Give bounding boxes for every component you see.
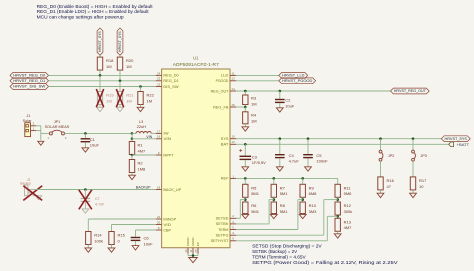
svg-text:6M8: 6M8 [309, 191, 318, 196]
svg-text:R15: R15 [118, 233, 126, 238]
svg-text:REG_OUT: REG_OUT [211, 89, 229, 93]
svg-text:21: 21 [157, 215, 161, 219]
svg-text:1M: 1M [106, 98, 112, 103]
jumper JP1 SOLAR MEAS [45, 120, 70, 140]
svg-text:10uF: 10uF [90, 143, 100, 148]
svg-text:JP3: JP3 [420, 154, 427, 158]
svg-text:10: 10 [184, 249, 188, 253]
junction BAT/C3 [244, 143, 247, 146]
svg-text:14: 14 [232, 87, 236, 91]
svg-text:SW: SW [163, 132, 169, 136]
svg-text:1M: 1M [126, 98, 132, 103]
resistor R5 [243, 184, 260, 197]
wire VIN [132, 138, 156, 140]
wire SYS to JP2 [380, 139, 382, 151]
note text top-left [37, 4, 154, 20]
ground below C5 [305, 167, 312, 171]
wire SYS to JP3 [412, 139, 414, 151]
svg-text:SOLAR MEAS: SOLAR MEAS [45, 125, 70, 129]
wire C2 bottom [279, 103, 281, 108]
junction divider R12/R13 [336, 215, 339, 218]
wire REG_FB [236, 106, 245, 108]
wire R14 to ground [87, 245, 89, 248]
wire REF to R5 [244, 178, 246, 184]
wire R10 to ground [302, 213, 304, 216]
svg-text:REG_D1: REG_D1 [163, 79, 178, 83]
wire REF to R9 [302, 178, 304, 184]
wire R20 to REG_D1 [119, 70, 121, 81]
wire label to R20 [119, 55, 121, 57]
svg-text:1F/5.5V: 1F/5.5V [252, 160, 266, 165]
svg-text:J1: J1 [26, 114, 30, 118]
svg-text:R4: R4 [251, 113, 257, 118]
resistor R21 (DNP ghost) [117, 90, 134, 107]
svg-text:SETHYST: SETHYST [211, 239, 229, 243]
junction VIN/R1 [131, 138, 134, 141]
svg-text:REG_D0 (Enable Boost) = HIGH =: REG_D0 (Enable Boost) = HIGH = Enabled b… [37, 4, 154, 9]
ground below C1 [82, 148, 89, 152]
svg-text:SETBK (Backup) = 2V: SETBK (Backup) = 2V [252, 249, 297, 254]
svg-text:C6: C6 [144, 236, 150, 241]
svg-text:BAT: BAT [221, 143, 229, 147]
junction REF/R7 [273, 177, 276, 180]
svg-text:R16: R16 [387, 178, 395, 183]
wire R13 to ground [337, 231, 339, 234]
svg-text:R13: R13 [344, 219, 352, 224]
wire JP2 to R16 [380, 161, 382, 177]
svg-text:R7: R7 [280, 185, 286, 190]
junction divider R7/R8 [273, 198, 276, 201]
wire MINOP [88, 219, 155, 232]
wire REG_D0 to R19 [99, 75, 101, 90]
ground below R2 [129, 175, 136, 179]
wire R3 top [244, 91, 246, 95]
global label HRVST_PGOOD [279, 78, 316, 84]
resistor R6 [243, 202, 260, 214]
resistor R11 [335, 184, 352, 197]
wire TERM [236, 200, 302, 230]
svg-text:MPPT: MPPT [163, 153, 173, 157]
svg-text:R18: R18 [106, 58, 114, 63]
svg-text:SYS: SYS [221, 137, 230, 141]
wire LLD [236, 74, 278, 76]
inductor L3 [132, 120, 156, 134]
svg-text:100k: 100k [94, 238, 103, 243]
wire VIN drop [131, 133, 133, 138]
ground below R16 [377, 193, 384, 197]
junction divider R11/R12 [336, 198, 339, 201]
svg-text:ADP5091ACPZ-1-R7: ADP5091ACPZ-1-R7 [173, 62, 220, 67]
capacitor C7 (DNP ghost) [81, 190, 105, 209]
resistor R16 [378, 177, 395, 190]
wire R18 to REG_D0 [99, 70, 101, 75]
svg-text:4.7uF: 4.7uF [95, 203, 105, 207]
svg-text:1M: 1M [126, 64, 132, 69]
svg-text:REG_D1 (Enable LDO) = HIGH = E: REG_D1 (Enable LDO) = HIGH = Enabled by … [37, 9, 150, 14]
svg-text:R5: R5 [251, 185, 257, 190]
svg-text:5M1: 5M1 [280, 191, 289, 196]
svg-text:HRVST_SYS: HRVST_SYS [118, 30, 122, 52]
wire BAT rail [236, 143, 448, 145]
junction SYS/C5 [307, 137, 310, 140]
svg-text:R2: R2 [138, 161, 144, 166]
resistor R4 [243, 107, 257, 124]
svg-text:SETPG: SETPG [216, 234, 229, 238]
junction C1 tap [84, 132, 87, 135]
junction REG_OUT/R3 [244, 90, 247, 93]
svg-text:10nF: 10nF [144, 241, 154, 246]
global label HRVST_REG_D0 [10, 73, 49, 79]
svg-text:C4: C4 [289, 153, 295, 158]
junction REF/R9 [301, 177, 304, 180]
junction L3/R1 tap [131, 132, 134, 135]
junction C7 tap [84, 188, 87, 191]
svg-text:TERM: TERM [218, 228, 228, 232]
hierarchical label +BATT [449, 142, 470, 147]
wire R22 to ground [140, 105, 142, 108]
ground below R13 [334, 234, 341, 238]
ground below R10 [299, 214, 306, 218]
svg-text:5M1: 5M1 [251, 191, 260, 196]
wire R5 to R6 [244, 197, 246, 202]
resistor R3 [243, 95, 257, 106]
svg-text:3M3: 3M3 [309, 209, 318, 214]
svg-text:SETBK: SETBK [216, 222, 230, 226]
wire R11 to R12 [337, 197, 339, 202]
capacitor C4 [275, 153, 299, 164]
svg-text:R12: R12 [344, 203, 352, 208]
wire R3 to REG_FB [244, 105, 246, 108]
svg-text:1M: 1M [106, 64, 112, 69]
svg-text:VIN: VIN [163, 137, 171, 141]
wire R16 to ground [380, 190, 382, 193]
svg-text:10: 10 [419, 184, 424, 189]
ground below J1 [38, 141, 44, 145]
svg-text:HRVST_REG_D1: HRVST_REG_D1 [13, 79, 45, 83]
svg-text:LLD: LLD [221, 74, 229, 78]
svg-text:19: 19 [232, 135, 236, 139]
svg-text:L3: L3 [139, 120, 143, 124]
svg-text:HRVST_SYS: HRVST_SYS [98, 30, 102, 52]
resistor R8 [271, 202, 288, 214]
svg-text:MCU can change settings after: MCU can change settings after powerup [37, 15, 125, 20]
wire label to R18 [99, 55, 101, 57]
junction REG_FB [244, 106, 247, 109]
svg-text:REG_D0: REG_D0 [163, 74, 178, 78]
junction REG_D0/R18 [99, 74, 102, 77]
capacitor C1 [81, 137, 100, 148]
jumper JP2 [379, 150, 394, 161]
wire REF to R7 [273, 178, 275, 184]
svg-text:TERM (Terminal) = 4.65V: TERM (Terminal) = 4.65V [252, 254, 306, 259]
DNP cross over C7 [79, 190, 92, 210]
wire VIN to R1 [131, 139, 133, 142]
wire C6 to ground [135, 241, 137, 246]
wire REG_OUT [236, 90, 390, 92]
svg-text:R10: R10 [309, 203, 317, 208]
wire C4 top [279, 139, 281, 154]
svg-text:100nF: 100nF [316, 159, 328, 164]
svg-text:Solar: Solar [23, 119, 33, 123]
svg-text:300k: 300k [344, 209, 353, 214]
capacitor C2 [275, 98, 295, 109]
note text bottom-right [252, 243, 398, 265]
wire JP1 to SW node [65, 132, 133, 134]
svg-text:47: 47 [387, 184, 392, 189]
resistor R19 (DNP ghost) [97, 90, 114, 107]
svg-text:24: 24 [157, 71, 161, 75]
DNP cross over J2 [23, 186, 42, 201]
svg-text:R20: R20 [126, 58, 134, 63]
svg-text:13: 13 [232, 77, 236, 81]
svg-text:4M7: 4M7 [344, 225, 353, 230]
wire JP3 to R17 [412, 161, 414, 177]
DNP cross over R21 [116, 89, 123, 107]
resistor R14 [86, 232, 103, 245]
svg-text:4M7: 4M7 [138, 148, 147, 153]
wire C1 top [84, 133, 86, 138]
svg-text:1M8: 1M8 [138, 166, 147, 171]
svg-text:C7: C7 [95, 197, 100, 201]
wire REF rail [236, 178, 337, 184]
wire SYS rail [236, 138, 441, 140]
svg-text:11: 11 [232, 71, 235, 75]
svg-text:PGND: PGND [186, 237, 190, 247]
junction SYS/JP3 [412, 137, 415, 140]
junction SYS/JP2 [379, 137, 382, 140]
resistor R22 [138, 92, 155, 105]
wire C2 top [279, 91, 281, 99]
capacitor C5 [303, 153, 328, 164]
resistor R9 [300, 184, 317, 197]
ground below C3 [242, 167, 249, 171]
svg-text:VID: VID [163, 223, 171, 227]
svg-text:1M: 1M [147, 98, 153, 103]
svg-text:5M1: 5M1 [251, 209, 260, 214]
resistor R7 [271, 184, 288, 197]
junction REF/R5 [244, 177, 247, 180]
svg-text:4.7uF: 4.7uF [289, 159, 300, 164]
ground below R15 [108, 248, 115, 252]
capacitor C6 [131, 236, 153, 247]
junction DIS_SW/R22 [139, 85, 142, 88]
svg-text:R9: R9 [309, 185, 315, 190]
svg-text:1M: 1M [251, 101, 257, 106]
global label HRVST_SYS vertical 1 [97, 28, 103, 55]
svg-text:DIS_SW: DIS_SW [163, 85, 179, 89]
wire SETBK [236, 200, 273, 224]
net label BACKUP [136, 186, 151, 190]
svg-text:SETSD: SETSD [216, 217, 230, 221]
svg-text:MINOP: MINOP [163, 217, 177, 221]
ground below R8 [270, 214, 277, 218]
svg-text:+BATT: +BATT [457, 143, 470, 147]
svg-text:SETSD (Stop Discharging) = 2V: SETSD (Stop Discharging) = 2V [252, 243, 322, 248]
wire R4 to ground [244, 124, 246, 127]
resistor R20 [117, 57, 134, 70]
svg-text:10uF: 10uF [285, 103, 295, 108]
svg-text:REG_FB: REG_FB [213, 105, 229, 109]
op-amp U1 ADP5091ACPZ-1-R7 [156, 56, 237, 254]
capacitor C3 supercap [239, 144, 266, 167]
svg-text:1M: 1M [251, 118, 257, 123]
junction GND [192, 254, 195, 257]
svg-text:R14: R14 [94, 233, 102, 238]
ground below R6 [242, 214, 249, 218]
svg-text:U1: U1 [193, 56, 199, 61]
svg-text:R8: R8 [280, 203, 286, 208]
ground below R22 [137, 107, 144, 111]
wire R9 to R10 [302, 197, 304, 202]
ground below R21 (ghost) [117, 107, 124, 111]
svg-text:11: 11 [189, 249, 193, 252]
wire CBP [136, 230, 156, 237]
svg-text:16: 16 [157, 135, 161, 139]
wire SETSD [236, 200, 245, 219]
global label HRVST_REG_OUT [391, 88, 430, 94]
svg-text:HRVST_SYS: HRVST_SYS [445, 137, 468, 141]
resistor R12 [335, 202, 352, 215]
svg-text:HRVST_REG_OUT: HRVST_REG_OUT [394, 89, 426, 93]
svg-text:BACKUP: BACKUP [136, 186, 151, 190]
junction divider R5/R6 [244, 198, 247, 201]
svg-text:18: 18 [157, 185, 161, 189]
ground below R19 (ghost) [97, 107, 104, 111]
svg-text:CBP: CBP [163, 228, 171, 232]
connector J1 Solar [23, 114, 36, 136]
global label HRVST_LLD [279, 73, 308, 79]
wire DIS_SW to R22 [140, 87, 142, 92]
svg-text:R11: R11 [344, 185, 352, 190]
wire REG_D1 to R21 [119, 81, 121, 90]
svg-text:HRVST_LLD: HRVST_LLD [282, 74, 305, 78]
svg-text:5M1: 5M1 [280, 209, 289, 214]
net label VIN [146, 135, 152, 139]
wire R17 to ground [412, 190, 414, 193]
ground below C2 [276, 108, 283, 112]
wire R2 to ground [131, 173, 133, 176]
svg-text:R22: R22 [147, 93, 155, 98]
wire PGOOD [236, 80, 278, 82]
svg-text:AGND: AGND [191, 237, 195, 247]
global label HRVST_DIS_SW [10, 84, 49, 90]
connector J2 Backup (DNP ghost) [20, 178, 41, 200]
global label HRVST_REG_D1 [10, 78, 49, 84]
wire net DIS_SW [49, 86, 156, 88]
svg-text:HRVST_DIS_SW: HRVST_DIS_SW [13, 85, 46, 89]
wire BACKUP [36, 189, 156, 191]
resistor R13 [335, 218, 352, 231]
svg-text:R19: R19 [106, 93, 114, 98]
svg-text:JP2: JP2 [388, 154, 395, 158]
wire R6 to ground [244, 213, 246, 216]
svg-text:Backup: Backup [20, 181, 31, 185]
svg-text:12: 12 [232, 140, 236, 144]
svg-text:JP1: JP1 [54, 120, 61, 124]
wire R7 to R8 [273, 197, 275, 202]
svg-text:EP: EP [196, 242, 200, 246]
svg-text:17: 17 [157, 129, 161, 133]
ground below R14 [85, 248, 92, 252]
wire J1 to JP1 [41, 132, 50, 134]
resistor R1 [129, 142, 146, 155]
resistor R15 [109, 232, 126, 245]
svg-text:R17: R17 [419, 178, 427, 183]
junction REG_D1/R20 [119, 80, 122, 83]
junction REG_OUT/C2 [279, 90, 282, 93]
DNP cross over R19 [96, 89, 103, 107]
resistor R2 [129, 155, 146, 173]
junction SYS/C4 [279, 137, 282, 140]
svg-text:PGOOD: PGOOD [216, 79, 229, 83]
svg-text:22: 22 [157, 82, 161, 86]
junction MPPT [131, 154, 134, 157]
svg-text:REF: REF [221, 177, 229, 181]
ground below C7 (ghost) [82, 209, 89, 213]
svg-text:VIN: VIN [146, 135, 152, 139]
wire MPPT [132, 154, 156, 156]
wire R8 to ground [273, 213, 275, 216]
wire C5 bottom [307, 158, 309, 167]
junction divider R9/R10 [301, 198, 304, 201]
svg-text:23: 23 [157, 77, 161, 81]
wire SETHYST [236, 216, 337, 241]
svg-text:C2: C2 [285, 98, 291, 103]
ground below C6 [132, 246, 139, 250]
svg-text:R3: R3 [251, 96, 257, 101]
global label HRVST_SYS vertical 2 [117, 28, 123, 55]
svg-text:HRVST_PGOOD: HRVST_PGOOD [282, 79, 313, 83]
wire GND bracket [188, 254, 198, 258]
ground below U1 [189, 258, 198, 263]
global label HRVST_SYS right [441, 136, 470, 142]
resistor R10 [300, 202, 317, 214]
svg-text:25: 25 [194, 249, 198, 253]
resistor R18 [97, 57, 114, 70]
wire C1 bottom [84, 142, 86, 148]
wire R12 to R13 [337, 215, 339, 218]
svg-text:C1: C1 [90, 137, 96, 142]
svg-text:22uH: 22uH [137, 125, 146, 129]
svg-text:R21: R21 [126, 93, 134, 98]
wire SETPG [236, 200, 337, 236]
wire net REG_D0 [49, 74, 156, 76]
wire R1 to MPPT node [131, 154, 133, 157]
ground below R17 [410, 193, 417, 197]
svg-text:C5: C5 [316, 153, 322, 158]
resistor R17 [410, 177, 427, 190]
wire R15 to ground [111, 245, 113, 248]
wire VID [112, 225, 156, 232]
svg-text:20: 20 [157, 220, 161, 224]
wire C5 top [307, 139, 309, 154]
wire C4 bottom [279, 158, 281, 167]
svg-text:R1: R1 [138, 143, 144, 148]
svg-text:HRVST_REG_D0: HRVST_REG_D0 [13, 74, 45, 78]
ground below R4 [242, 127, 249, 131]
wire J1 pin1 [36, 130, 41, 132]
svg-text:C3: C3 [252, 154, 258, 159]
svg-text:R6: R6 [251, 203, 257, 208]
svg-text:SETPG (Power Good) = Falling a: SETPG (Power Good) = Falling at 2.12V, R… [252, 260, 398, 265]
svg-text:15: 15 [232, 103, 236, 107]
wire J1 pin2 down [36, 126, 41, 141]
jumper JP3 [412, 150, 427, 161]
svg-text:5M6: 5M6 [344, 191, 353, 196]
svg-text:BACK_UP: BACK_UP [163, 188, 182, 192]
wire net REG_D1 [49, 80, 156, 82]
ground below C4 [276, 167, 283, 171]
